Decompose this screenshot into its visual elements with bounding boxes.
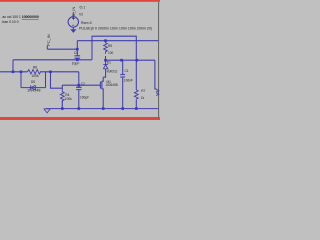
wire D5 loop right vertical [45,72,47,88]
bottom red bar [0,117,160,120]
node dot W2 left [104,59,107,62]
wire jog down from rail B [51,72,63,88]
node dot C2 ground [78,107,81,110]
V2 minus mark [72,24,74,26]
diode D1 symbol [103,65,108,69]
svg-text:1N4148: 1N4148 [27,88,41,92]
svg-text:1k: 1k [141,96,145,100]
resistor R7 zigzag [134,90,138,101]
svg-text:C2: C2 [81,82,85,86]
voltage source V2 circle [68,17,78,27]
right window border [158,2,160,117]
mosfet M1 source stub [102,89,103,109]
svg-text:.tran 0 10 0: .tran 0 10 0 [2,20,19,24]
capacitor C2 [76,85,82,108]
wire rail B right [40,71,79,73]
svg-text:R5: R5 [108,44,112,48]
port chevrons at right border [156,89,159,95]
node dot R7 ground [135,107,138,110]
node dot C4 on W1 [76,59,79,62]
svg-text:100nF: 100nF [124,78,133,82]
ground rail [46,108,159,110]
svg-text:100µF: 100µF [80,96,89,100]
wire D1 top lead [105,60,107,64]
svg-text:D5: D5 [31,80,35,84]
wire D5 loop left vertical [20,72,22,88]
V2 plus mark [72,18,74,20]
node dot C1 on W2 [120,59,123,62]
svg-text:10µF: 10µF [72,62,80,66]
node dot PC_IN tee [76,48,79,51]
mosfet M1 drain stub [102,77,103,81]
wire rail B corner down to gate [78,72,80,85]
wire D1 bottom jog to drain [103,69,105,77]
svg-text:PC_IN: PC_IN [47,34,51,46]
svg-text:100: 100 [108,51,114,55]
wire W2 corner down at right [155,60,157,89]
wire vertical at x13 [12,60,14,72]
wire R4 to ground rail [61,101,63,109]
mosfet M1 channel bar [101,81,103,89]
svg-text:D1: D1 [107,61,111,65]
ground under V2 [71,30,76,33]
node dot C2 gate [78,84,81,87]
svg-text:AO6408: AO6408 [106,83,118,87]
mosfet M1 gate bar [99,82,101,89]
resistor R6 zigzag [28,70,41,74]
svg-text:PULSE(0 0 2000m 100n 100n 100n: PULSE(0 0 2000m 100n 100n 100n 200m 20) [79,26,152,30]
resistor R4 zigzag [60,88,64,102]
node dot R5 line2 [104,39,107,42]
diode D5 symbol [31,85,36,89]
svg-text:R4: R4 [65,93,69,97]
svg-text:0) 1: 0) 1 [80,5,86,9]
node dot M1 source ground [102,107,105,110]
wire W2 horizontal [106,59,155,61]
svg-text:100k: 100k [32,74,39,78]
wire R5 bottom lead [105,56,107,60]
ground symbol [44,109,50,113]
svg-text:R6: R6 [33,66,37,70]
svg-text:C1: C1 [125,69,129,73]
wire PC_IN horizontal [47,48,77,50]
capacitor C4 [75,56,81,60]
wire line2 PC_IN to right border [77,40,158,42]
wire R7 bottom lead [135,101,137,109]
svg-text:MUR2012: MUR2012 [107,69,118,73]
node dot x13 rail B [12,71,15,74]
node dot loop left [20,71,23,74]
capacitor C1 [120,60,125,108]
node PC_IN stub above V2 [72,12,74,16]
svg-text:100k: 100k [65,97,72,101]
node dot x136.8 on W2 [136,59,139,62]
svg-text:Rser=0: Rser=0 [81,21,92,25]
resistor R5 zigzag [104,41,108,54]
junction dots [12,39,138,110]
wire rail B left [0,71,28,73]
wire D5 loop bottom [21,87,46,89]
wire vertical to line2 and C4 [76,41,78,56]
wire line1 bridge [92,36,136,90]
node dot R4 ground [61,107,64,110]
svg-text:PC_IN: PC_IN [71,6,76,19]
wire V2 bottom stub [72,27,74,29]
svg-text:C4: C4 [74,51,78,55]
wire gate horizontal [62,84,100,86]
background [0,0,160,120]
wire W1 horizontal [13,59,92,61]
svg-text:R7: R7 [141,89,145,93]
svg-text:.ac oct 100 1 100000000: .ac oct 100 1 100000000 [2,15,39,19]
node dot jog [49,71,52,74]
svg-text:V2: V2 [79,13,83,17]
top red bar [0,0,160,2]
wire from PC_IN label down [46,46,48,50]
node dot C1 ground [121,107,124,110]
